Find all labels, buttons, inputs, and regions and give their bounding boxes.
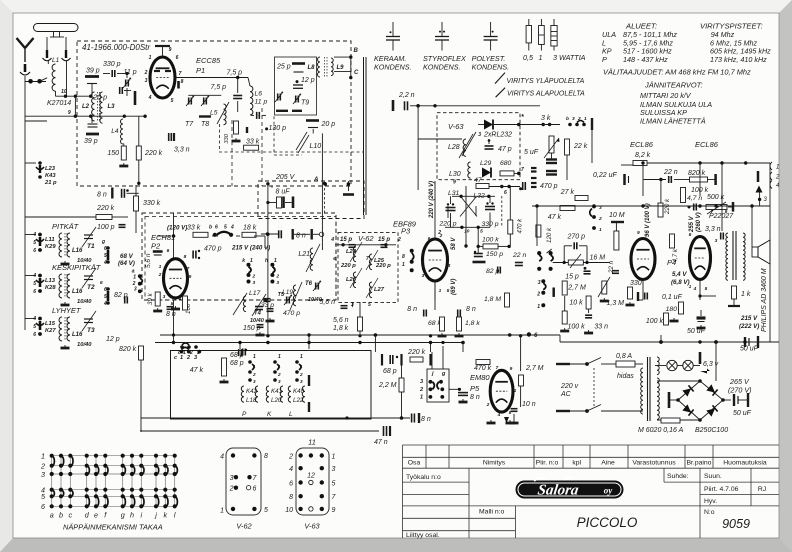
svg-text:Piirt. 4.7.06: Piirt. 4.7.06	[704, 486, 739, 493]
svg-text:K28: K28	[45, 285, 56, 291]
svg-text:9: 9	[725, 209, 728, 215]
svg-text:270 p: 270 p	[567, 234, 586, 241]
svg-text:11 p: 11 p	[255, 99, 268, 106]
svg-text:g: g	[441, 371, 446, 377]
svg-text:4: 4	[693, 286, 697, 292]
svg-text:5: 5	[171, 98, 174, 104]
svg-text:130 p: 130 p	[269, 125, 287, 132]
svg-text:50 uF: 50 uF	[733, 410, 752, 417]
svg-text:215 V: 215 V	[740, 315, 758, 322]
svg-text:2: 2	[437, 230, 441, 236]
svg-text:47 p: 47 p	[498, 146, 512, 153]
svg-text:Varastotunnus: Varastotunnus	[632, 460, 676, 467]
svg-text:2: 2	[277, 372, 281, 377]
svg-text:Työkalu n:o: Työkalu n:o	[406, 474, 441, 481]
svg-text:e: e	[100, 280, 103, 286]
svg-text:Huomautuksia: Huomautuksia	[723, 460, 767, 467]
svg-text:150 p: 150 p	[486, 251, 503, 258]
svg-text:1: 1	[274, 258, 277, 264]
svg-text:T1: T1	[87, 243, 95, 250]
svg-text:2: 2	[419, 387, 423, 393]
svg-text:8: 8	[181, 79, 184, 85]
svg-text:(64 V): (64 V)	[118, 260, 135, 267]
svg-text:5: 5	[447, 288, 450, 294]
svg-text:L13: L13	[45, 278, 56, 284]
svg-text:10: 10	[285, 507, 293, 514]
svg-text:L24: L24	[346, 249, 357, 255]
svg-text:5: 5	[224, 225, 227, 231]
svg-text:220 p: 220 p	[340, 263, 356, 269]
svg-text:Suhde:: Suhde:	[667, 473, 689, 480]
svg-text:1: 1	[599, 227, 602, 233]
svg-text:KONDENS.: KONDENS.	[472, 63, 510, 72]
svg-text:JÄNNITEARVOT:: JÄNNITEARVOT:	[644, 81, 703, 90]
svg-text:5,6 n: 5,6 n	[145, 253, 152, 268]
svg-text:L1: L1	[52, 57, 60, 64]
svg-text:16 M: 16 M	[590, 255, 606, 262]
svg-text:2: 2	[158, 272, 162, 278]
svg-text:P: P	[242, 411, 247, 418]
svg-text:2: 2	[275, 274, 279, 280]
svg-text:KONDENS.: KONDENS.	[423, 63, 461, 72]
svg-text:2: 2	[775, 175, 780, 181]
svg-text:8 n: 8 n	[407, 306, 417, 313]
svg-text:L16: L16	[72, 289, 83, 295]
svg-text:3: 3	[253, 280, 256, 286]
svg-text:330: 330	[630, 280, 642, 287]
svg-text:2: 2	[598, 216, 602, 222]
svg-text:Hyv.: Hyv.	[704, 498, 717, 505]
svg-text:2: 2	[252, 274, 256, 280]
svg-text:K29: K29	[45, 244, 56, 250]
svg-text:7: 7	[422, 266, 425, 272]
svg-text:100 p: 100 p	[97, 224, 115, 231]
svg-text:680: 680	[500, 160, 512, 167]
svg-text:4: 4	[497, 412, 501, 418]
svg-text:L23: L23	[45, 166, 56, 172]
svg-text:15 p: 15 p	[378, 237, 390, 243]
svg-text:330 p: 330 p	[482, 221, 499, 228]
svg-text:e: e	[333, 256, 336, 262]
svg-text:148 - 437 kHz: 148 - 437 kHz	[623, 55, 668, 64]
svg-text:100 k: 100 k	[482, 237, 499, 244]
svg-text:PICCOLO: PICCOLO	[577, 515, 638, 530]
svg-text:2: 2	[288, 454, 293, 461]
svg-text:33 n: 33 n	[594, 324, 608, 331]
svg-text:4: 4	[178, 296, 182, 302]
svg-text:3 k: 3 k	[541, 115, 551, 122]
svg-text:6: 6	[428, 236, 431, 242]
svg-text:220 k: 220 k	[664, 198, 671, 215]
svg-text:3: 3	[134, 287, 137, 293]
svg-text:L4: L4	[111, 128, 119, 135]
svg-text:5: 5	[368, 302, 371, 308]
svg-text:B250C100: B250C100	[695, 427, 728, 434]
svg-text:5: 5	[104, 253, 107, 259]
svg-text:B: B	[354, 48, 359, 54]
svg-text:6: 6	[689, 232, 692, 238]
svg-text:L9: L9	[337, 65, 345, 71]
svg-text:2: 2	[299, 372, 303, 377]
svg-text:ECL86: ECL86	[630, 140, 654, 149]
svg-text:3: 3	[276, 280, 279, 286]
svg-text:3: 3	[278, 379, 281, 384]
svg-text:1 k: 1 k	[741, 291, 751, 298]
svg-text:1: 1	[149, 55, 152, 61]
svg-text:5: 5	[33, 324, 36, 330]
svg-text:Aine: Aine	[601, 460, 615, 467]
svg-text:RJ: RJ	[758, 486, 766, 493]
svg-text:3: 3	[300, 379, 303, 384]
svg-text:4: 4	[32, 232, 36, 238]
svg-text:V-63: V-63	[448, 122, 464, 131]
svg-text:a: a	[50, 511, 54, 520]
svg-text:(120 V): (120 V)	[167, 225, 187, 232]
svg-text:L15: L15	[45, 321, 56, 327]
svg-text:25 p: 25 p	[276, 64, 291, 71]
svg-text:6: 6	[215, 225, 218, 231]
svg-text:10: 10	[61, 89, 67, 95]
svg-text:0,8 A: 0,8 A	[616, 353, 632, 360]
svg-text:7: 7	[521, 167, 524, 173]
svg-text:(260 V): (260 V)	[696, 212, 702, 232]
svg-text:e: e	[94, 511, 98, 520]
svg-text:100 k: 100 k	[646, 318, 664, 325]
svg-text:8: 8	[402, 254, 405, 260]
svg-text:3: 3	[230, 475, 234, 482]
svg-text:1,8 k: 1,8 k	[333, 325, 349, 332]
svg-text:58 V: 58 V	[451, 237, 457, 250]
svg-text:220 k: 220 k	[144, 150, 163, 157]
svg-text:470 p: 470 p	[540, 183, 558, 190]
svg-text:33 k: 33 k	[246, 139, 260, 146]
svg-text:2: 2	[252, 372, 256, 377]
svg-text:Piir. n:o: Piir. n:o	[536, 460, 559, 467]
svg-text:5: 5	[33, 240, 36, 246]
svg-text:L22: L22	[293, 397, 304, 404]
svg-text:A: A	[313, 177, 318, 183]
svg-text:V-62: V-62	[236, 522, 251, 531]
svg-text:215 V (240 V): 215 V (240 V)	[231, 245, 270, 252]
svg-text:8 n: 8 n	[421, 416, 431, 423]
svg-text:L17: L17	[249, 290, 261, 297]
svg-text:2: 2	[486, 402, 490, 408]
svg-text:2,2 M: 2,2 M	[378, 382, 397, 389]
svg-text:8 n: 8 n	[296, 233, 306, 240]
svg-text:9: 9	[510, 366, 513, 372]
svg-text:L3: L3	[108, 104, 116, 110]
svg-text:ECL86: ECL86	[695, 140, 719, 149]
svg-text:173 kHz, 410 kHz: 173 kHz, 410 kHz	[710, 55, 767, 64]
svg-text:K27: K27	[45, 328, 56, 334]
svg-text:g: g	[101, 239, 105, 245]
svg-text:L26: L26	[346, 277, 357, 283]
svg-text:21 p: 21 p	[44, 180, 57, 186]
svg-text:5: 5	[33, 281, 36, 287]
svg-text:T2: T2	[87, 284, 95, 291]
svg-text:L5: L5	[210, 110, 218, 117]
svg-text:7: 7	[496, 365, 499, 371]
svg-text:47 k: 47 k	[548, 214, 562, 221]
svg-text:L10: L10	[310, 143, 322, 150]
svg-text:20 p: 20 p	[92, 95, 107, 102]
svg-text:22 n: 22 n	[512, 252, 526, 259]
svg-text:220 k: 220 k	[96, 205, 115, 212]
svg-text:(222 V): (222 V)	[739, 323, 759, 330]
svg-text:VIRITYS YLÄPUOLELTA: VIRITYS YLÄPUOLELTA	[507, 77, 585, 85]
svg-text:3: 3	[715, 238, 718, 244]
svg-text:8: 8	[264, 453, 268, 460]
svg-text:47: 47	[474, 177, 482, 184]
svg-text:4,7 n: 4,7 n	[687, 195, 702, 202]
svg-text:1: 1	[537, 304, 540, 310]
svg-text:4: 4	[103, 260, 107, 266]
svg-text:3,3 n: 3,3 n	[705, 226, 721, 233]
svg-text:4: 4	[148, 95, 152, 101]
svg-text:Osa: Osa	[408, 460, 421, 467]
svg-text:2,7 M: 2,7 M	[525, 365, 544, 372]
svg-text:33 k: 33 k	[187, 225, 201, 232]
svg-text:h: h	[130, 511, 134, 520]
svg-text:L30: L30	[449, 171, 461, 178]
svg-text:9: 9	[169, 47, 172, 53]
svg-text:T6: T6	[305, 281, 313, 287]
svg-text:EM80: EM80	[470, 373, 490, 382]
svg-text:180: 180	[666, 306, 678, 313]
svg-text:5: 5	[264, 507, 268, 514]
svg-text:1: 1	[300, 354, 303, 360]
svg-text:10 M: 10 M	[609, 212, 625, 219]
svg-text:ECC85: ECC85	[196, 56, 221, 65]
svg-text:VÄLITAAJUUDET: AM 468 kHz FM: VÄLITAAJUUDET: AM 468 kHz FM 10,7 Mhz	[603, 68, 751, 77]
svg-text:AC: AC	[560, 391, 572, 398]
svg-text:5 uF: 5 uF	[524, 149, 539, 156]
svg-text:820 k: 820 k	[119, 346, 137, 353]
svg-text:1: 1	[332, 454, 336, 461]
svg-text:18 k: 18 k	[243, 225, 257, 232]
svg-text:1: 1	[180, 355, 183, 361]
svg-text:T3: T3	[87, 327, 95, 334]
svg-text:470 p: 470 p	[204, 246, 222, 253]
svg-text:7: 7	[179, 71, 182, 77]
svg-text:9: 9	[422, 250, 425, 256]
svg-text:5: 5	[332, 481, 336, 488]
svg-text:0,22 uF: 0,22 uF	[593, 172, 617, 179]
svg-text:c: c	[69, 511, 73, 520]
svg-text:330: 330	[224, 133, 230, 143]
svg-text:1: 1	[402, 262, 405, 268]
svg-text:22 k: 22 k	[573, 143, 588, 150]
svg-text:470 k: 470 k	[518, 218, 524, 234]
svg-text:2: 2	[229, 486, 234, 493]
svg-text:b: b	[59, 511, 63, 520]
svg-text:8: 8	[184, 254, 187, 260]
svg-text:6: 6	[41, 502, 45, 511]
svg-text:12 p: 12 p	[301, 77, 315, 84]
svg-text:1: 1	[584, 116, 587, 122]
svg-text:2,7 M: 2,7 M	[567, 285, 586, 292]
svg-text:T8: T8	[201, 121, 209, 128]
svg-text:LYHYET: LYHYET	[52, 306, 82, 315]
svg-text:8: 8	[448, 263, 451, 269]
svg-text:9: 9	[332, 507, 336, 514]
svg-text:96 V (100 V): 96 V (100 V)	[645, 203, 651, 237]
svg-text:V-63: V-63	[304, 522, 320, 531]
svg-text:12 p: 12 p	[106, 336, 120, 343]
svg-text:L8: L8	[308, 65, 316, 71]
svg-text:NÄPPÄINMEKANISMI TAKAA: NÄPPÄINMEKANISMI TAKAA	[63, 523, 163, 532]
svg-text:4: 4	[32, 273, 36, 279]
svg-text:205 V: 205 V	[275, 174, 296, 181]
svg-text:6: 6	[289, 481, 293, 488]
svg-text:9: 9	[68, 110, 71, 116]
svg-text:P3: P3	[401, 227, 411, 236]
svg-text:1: 1	[41, 452, 45, 461]
svg-text:L28: L28	[448, 144, 460, 151]
svg-text:P2: P2	[151, 242, 161, 251]
svg-text:L18: L18	[246, 397, 257, 404]
svg-text:4: 4	[289, 466, 293, 473]
svg-text:10 n: 10 n	[522, 401, 536, 408]
svg-text:L11: L11	[45, 237, 55, 243]
svg-text:39 p: 39 p	[86, 68, 100, 75]
svg-text:50 uF: 50 uF	[740, 346, 759, 353]
svg-text:K41: K41	[271, 388, 282, 395]
svg-text:470 k: 470 k	[474, 365, 492, 372]
svg-text:1: 1	[133, 275, 136, 281]
svg-text:220 v: 220 v	[560, 383, 579, 390]
svg-text:6: 6	[33, 248, 36, 254]
svg-text:L29: L29	[480, 160, 492, 167]
svg-text:11 p: 11 p	[124, 69, 137, 76]
svg-text:3 WATTIA: 3 WATTIA	[553, 53, 586, 62]
svg-text:T4: T4	[254, 311, 262, 317]
svg-text:255 V: 255 V	[689, 215, 695, 233]
svg-text:K: K	[267, 411, 272, 418]
svg-text:L16: L16	[72, 248, 83, 254]
svg-text:82 p: 82 p	[114, 292, 128, 299]
svg-text:1: 1	[278, 354, 281, 360]
svg-text:K40: K40	[293, 388, 305, 395]
svg-text:T5: T5	[278, 292, 285, 298]
svg-text:K27014: K27014	[47, 100, 71, 107]
svg-text:1: 1	[159, 264, 162, 270]
svg-text:7,5 p: 7,5 p	[211, 84, 227, 91]
svg-text:5: 5	[705, 286, 708, 292]
svg-text:10/40: 10/40	[77, 299, 92, 305]
svg-text:1: 1	[514, 388, 517, 394]
svg-text:P4: P4	[667, 258, 676, 267]
svg-text:g: g	[121, 511, 125, 520]
svg-text:V-62: V-62	[358, 234, 374, 243]
svg-text:hidas: hidas	[617, 373, 634, 380]
svg-text:4: 4	[103, 301, 107, 307]
svg-text:Salora: Salora	[537, 483, 581, 499]
svg-text:L20: L20	[271, 397, 282, 404]
svg-text:T7: T7	[185, 121, 194, 128]
svg-text:1: 1	[439, 288, 442, 294]
svg-text:c: c	[174, 355, 177, 361]
svg-text:8,2 k: 8,2 k	[635, 152, 651, 159]
svg-text:220 p: 220 p	[375, 263, 391, 269]
svg-text:*: *	[521, 114, 524, 121]
svg-text:5,6 n: 5,6 n	[319, 299, 335, 306]
svg-text:100 k: 100 k	[568, 324, 586, 331]
svg-text:3: 3	[478, 132, 481, 138]
svg-text:4: 4	[421, 258, 425, 264]
svg-text:8 n: 8 n	[466, 306, 476, 313]
svg-text:oy: oy	[604, 486, 614, 496]
svg-text:j: j	[154, 511, 157, 520]
svg-text:9: 9	[189, 274, 192, 280]
svg-text:L27: L27	[374, 287, 385, 293]
svg-text:P1: P1	[196, 66, 205, 75]
svg-text:68 p: 68 p	[230, 360, 244, 367]
svg-text:2: 2	[397, 237, 401, 243]
svg-text:(270 V): (270 V)	[728, 386, 752, 395]
svg-text:3,3 n: 3,3 n	[174, 147, 190, 154]
svg-text:T9: T9	[301, 100, 309, 107]
svg-text:150 p: 150 p	[243, 325, 261, 332]
svg-text:9: 9	[453, 180, 456, 186]
svg-text:22 n: 22 n	[663, 169, 678, 176]
svg-text:3: 3	[41, 470, 45, 479]
svg-text:10: 10	[464, 229, 470, 235]
svg-text:47 k: 47 k	[190, 367, 204, 374]
svg-text:3: 3	[422, 273, 425, 279]
svg-text:L16: L16	[72, 332, 83, 338]
svg-text:3: 3	[420, 379, 423, 385]
svg-text:120 k: 120 k	[546, 227, 553, 243]
svg-text:1,8 M: 1,8 M	[484, 296, 501, 303]
svg-text:15 p: 15 p	[340, 237, 352, 243]
svg-text:6: 6	[176, 55, 179, 61]
svg-text:470 p: 470 p	[283, 310, 300, 317]
svg-text:Br.paino: Br.paino	[687, 460, 712, 467]
svg-text:KONDENS.: KONDENS.	[374, 63, 412, 72]
svg-text:7: 7	[711, 209, 714, 215]
svg-text:b: b	[209, 225, 212, 231]
svg-text:330 p: 330 p	[103, 61, 121, 68]
svg-text:K43: K43	[45, 173, 56, 179]
svg-text:(69 V): (69 V)	[451, 279, 457, 295]
svg-text:3: 3	[538, 280, 541, 286]
svg-text:220 V (240 V): 220 V (240 V)	[429, 181, 435, 219]
svg-text:8: 8	[289, 494, 293, 501]
svg-text:P5: P5	[470, 384, 480, 393]
svg-text:8 n: 8 n	[166, 311, 176, 318]
svg-text:M 6020 0,16 A: M 6020 0,16 A	[638, 427, 684, 434]
svg-text:K42: K42	[246, 388, 258, 395]
svg-text:3: 3	[351, 302, 354, 308]
svg-text:3: 3	[194, 355, 197, 361]
svg-text:Nimitys: Nimitys	[483, 460, 506, 467]
svg-text:8 uF: 8 uF	[276, 189, 291, 196]
svg-text:47 n: 47 n	[374, 439, 388, 446]
svg-text:k: k	[242, 258, 245, 264]
svg-text:4: 4	[330, 237, 334, 243]
svg-text:27 k: 27 k	[560, 189, 575, 196]
svg-text:5: 5	[480, 229, 483, 235]
svg-text:Malli n:o: Malli n:o	[479, 509, 505, 516]
svg-text:68 V: 68 V	[120, 253, 134, 260]
svg-text:6: 6	[253, 486, 257, 493]
svg-text:39 k: 39 k	[147, 292, 154, 305]
svg-text:3: 3	[332, 466, 336, 473]
svg-text:3: 3	[253, 379, 256, 384]
svg-text:7: 7	[366, 256, 369, 262]
svg-text:L: L	[289, 411, 293, 418]
